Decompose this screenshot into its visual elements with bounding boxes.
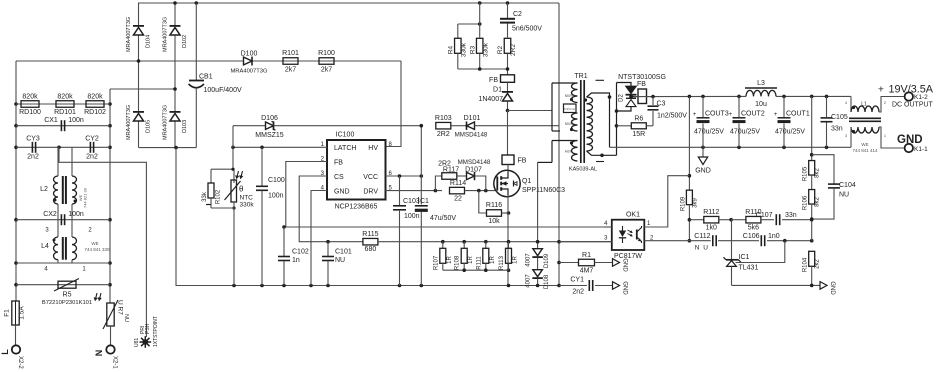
wire CS pin down (net B) (299, 176, 362, 242)
svg-text:R1: R1 (582, 252, 591, 259)
wire TL431 ref (736, 241, 785, 263)
resistor R103 2R2 (436, 122, 451, 129)
svg-text:8k2: 8k2 (815, 168, 821, 178)
svg-text:100uF/400V: 100uF/400V (204, 87, 242, 94)
electrolytic COUT2 470u/25V (738, 96, 740, 117)
svg-text:2n2: 2n2 (86, 154, 98, 161)
wire aux rail to VCC (column x=421) (420, 126, 422, 176)
resistor R4 330k (458, 23, 480, 25)
svg-text:MRA4007T3G: MRA4007T3G (163, 17, 169, 52)
svg-text:LATCH: LATCH (334, 145, 356, 152)
node GND bus junctions (232, 284, 236, 288)
diode D107 MMSD4148 (457, 175, 467, 177)
svg-text:N5VR: N5VR (565, 94, 574, 98)
svg-text:VCC: VCC (363, 174, 378, 181)
wire OK1 pin1 to R109 (644, 176, 689, 227)
svg-text:470u/25V: 470u/25V (775, 129, 805, 136)
svg-text:X2-2: X2-2 (17, 356, 23, 369)
wire OK1 pin4 stub (604, 226, 612, 228)
diode D103 MRA4007T3G (170, 114, 180, 122)
wire R7 to terminal N (110, 326, 112, 345)
svg-text:L1: L1 (861, 102, 867, 108)
svg-text:1N4007: 1N4007 (478, 96, 503, 103)
svg-text:AUX: AUX (565, 150, 572, 154)
diode D1 1N4007 (507, 82, 509, 93)
svg-text:R3: R3 (470, 45, 477, 54)
svg-text:C102: C102 (292, 249, 309, 256)
resistor R116 10k (gate-source) (479, 191, 487, 213)
svg-text:D108: D108 (544, 274, 550, 289)
wire CY midpoint to earth test point (59, 147, 146, 337)
svg-text:47u/50V: 47u/50V (430, 215, 456, 222)
svg-text:1n0: 1n0 (768, 233, 780, 240)
svg-text:R6: R6 (634, 116, 643, 123)
wire snubber bottom rail (458, 68, 508, 70)
resistor R117 2R2 (gate off) (435, 176, 441, 191)
svg-text:1R: 1R (513, 255, 519, 263)
wire bridge negative rail down to primary GND bus (176, 148, 559, 286)
wire DRV row (386, 190, 443, 192)
capacitor C107 33n (775, 214, 777, 225)
wire aux diode column (537, 162, 539, 248)
wire AC line-side left column (L) (15, 61, 17, 301)
wire AC input A row (16, 60, 401, 62)
test point U81 PRI PSH 1XTSTPOINT (143, 339, 149, 345)
diode D105 MRA4007T3G (134, 114, 144, 122)
node junctions on left columns (14, 102, 18, 106)
svg-text:R104: R104 (803, 257, 809, 272)
shunt regulator IC1 TL431 (731, 220, 733, 260)
wire AC line-side right column (N) (109, 89, 111, 303)
svg-text:U R7: U R7 (117, 300, 124, 315)
node bridge junctions (173, 1, 177, 5)
svg-text:FB: FB (518, 158, 527, 165)
svg-text:+: + (878, 84, 884, 96)
svg-text:FB: FB (489, 77, 498, 84)
resistor R3 330k (479, 3, 481, 38)
node top rail junctions (478, 1, 482, 5)
wire output bus after L3 (776, 95, 851, 97)
svg-text:MRA4007T3G: MRA4007T3G (126, 17, 132, 52)
svg-text:470u/25V: 470u/25V (694, 129, 724, 136)
terminal X2-2 L (12, 345, 20, 353)
current sense resistors R107/R108/R111/R113 1R (441, 240, 445, 244)
resistor RD100 820k (16, 103, 110, 105)
svg-text:L3: L3 (757, 80, 765, 87)
svg-text:GND: GND (695, 168, 711, 175)
svg-text:L: L (0, 349, 10, 355)
svg-text:K1-1: K1-1 (914, 146, 928, 153)
zener D106 MMSZ15 (233, 125, 266, 127)
svg-text:R114: R114 (450, 180, 466, 187)
svg-text:100n: 100n (68, 211, 84, 218)
svg-text:1k0: 1k0 (706, 225, 717, 232)
svg-text:2k7: 2k7 (321, 67, 332, 74)
svg-text:NTC: NTC (240, 195, 254, 202)
diode D101 MMSD4148 (451, 125, 467, 127)
wire AC input B row (110, 88, 175, 90)
svg-text:744 841 330: 744 841 330 (84, 247, 110, 252)
ferrite bead FB (clamp) (501, 75, 515, 83)
svg-text:NU: NU (839, 192, 849, 199)
svg-text:R115: R115 (362, 231, 378, 238)
wire bridge top rail (138, 2, 559, 4)
svg-text:R109: R109 (681, 196, 687, 211)
wire Q1 source column (507, 195, 509, 286)
svg-text:DRV: DRV (363, 189, 378, 196)
MOSFET Q1 SPP11N60C3 (507, 165, 509, 173)
wire NTC bottom to GND bus (206, 204, 211, 206)
ferrite bead FB (drain) (507, 111, 509, 156)
svg-text:N5VR: N5VR (565, 122, 574, 126)
capacitor C101 NU (326, 240, 330, 244)
NTC thermistor 330k (231, 180, 237, 202)
svg-text:OK1: OK1 (626, 212, 640, 219)
capacitor CY3 2n2 (16, 146, 110, 148)
svg-text:2R2: 2R2 (437, 131, 450, 138)
svg-text:MMSZ15: MMSZ15 (255, 132, 284, 139)
svg-text:33n: 33n (785, 212, 797, 219)
capacitor C3 1n2/500V (snubber) (652, 97, 654, 105)
resistor R1 4M7 (bridge primary-secondary) (559, 262, 579, 264)
svg-text:330k: 330k (461, 42, 468, 57)
svg-text:8k2: 8k2 (815, 197, 821, 207)
svg-text:1R: 1R (490, 255, 496, 263)
svg-text:3k9: 3k9 (693, 198, 699, 208)
svg-text:L4: L4 (41, 243, 49, 250)
svg-text:L2: L2 (40, 186, 48, 193)
svg-text:F1: F1 (4, 309, 11, 317)
svg-text:R106: R106 (803, 195, 809, 210)
svg-text:R101: R101 (282, 50, 299, 57)
capacitor CY1 2n2 (Y-cap) (559, 285, 587, 287)
svg-text:GND: GND (622, 281, 628, 295)
svg-text:5n6/500V: 5n6/500V (512, 26, 542, 33)
TR1 secondary winding (587, 97, 593, 151)
common-mode choke L4 (53, 237, 58, 260)
svg-text:R103: R103 (435, 115, 452, 122)
wire drain node to transformer primary (508, 110, 553, 112)
svg-text:+: + (774, 112, 778, 118)
capacitor C112 NU (712, 235, 714, 246)
svg-text:GND: GND (334, 189, 350, 196)
svg-text:KA5039-AL: KA5039-AL (569, 167, 597, 173)
wire OK1 pin2 row (644, 240, 710, 242)
wire bridge D102/D103 column (174, 3, 176, 26)
svg-text:2n2: 2n2 (572, 289, 584, 296)
bulk capacitor CB1 100uF/400V (195, 3, 197, 80)
svg-text:MRA4007T3G: MRA4007T3G (126, 105, 132, 140)
diode D108 4007 (533, 270, 543, 277)
svg-text:NCP1236B65: NCP1236B65 (335, 204, 378, 211)
wire secondary output to D2 anodes (616, 83, 618, 156)
svg-text:5.9Vrms: 5.9Vrms (564, 107, 576, 111)
capacitor C102 1n (283, 227, 285, 256)
diode D104 MRA4007T3G (134, 28, 144, 36)
svg-text:100n: 100n (268, 193, 284, 200)
svg-text:X2-1: X2-1 (111, 356, 117, 369)
wire gate (496, 190, 497, 192)
optocoupler OK1 PC817W (612, 220, 645, 250)
svg-text:R117: R117 (443, 167, 459, 174)
electrolytic COUT3 470u/25V (702, 96, 704, 117)
svg-text:MRA4007T3G: MRA4007T3G (230, 69, 268, 75)
wire rectified output to bus (647, 95, 747, 97)
svg-text:DC OUTPUT: DC OUTPUT (892, 102, 934, 109)
fuse F1 1.5A (12, 301, 19, 325)
wire FB pin to optocoupler (net A) (286, 162, 612, 228)
wire GND pin to bus (311, 191, 327, 286)
svg-text:D105: D105 (146, 120, 152, 133)
svg-text:θ: θ (239, 185, 244, 194)
resistor R109 3k9 (LED bias) (688, 96, 690, 190)
svg-text:CS: CS (334, 174, 344, 181)
capacitor C2 5n6/500V (507, 3, 509, 18)
svg-text:+: + (693, 112, 697, 118)
svg-text:R100: R100 (318, 50, 335, 57)
svg-text:22: 22 (454, 196, 462, 203)
svg-text:CB1: CB1 (199, 74, 213, 81)
diode D109 4007 (533, 249, 543, 256)
wire sense resistor bottom rail (443, 269, 509, 271)
svg-text:C112: C112 (694, 233, 710, 240)
svg-text:1n: 1n (292, 257, 300, 264)
svg-text:WE: WE (91, 241, 98, 246)
svg-text:C106: C106 (743, 233, 760, 240)
resistor R101 2k7 (283, 58, 298, 65)
capacitor C103 100n (VCC) (399, 176, 401, 205)
svg-text:D109: D109 (544, 253, 550, 268)
resistor R106 8k2 (809, 190, 815, 205)
node output bus junctions (688, 95, 692, 99)
svg-text:4007: 4007 (526, 274, 532, 288)
svg-text:+: + (729, 112, 733, 118)
svg-text:GND: GND (622, 258, 628, 272)
wire bridge negative rail (139, 147, 197, 149)
resistor R114 22 (gate) (450, 187, 465, 194)
svg-text:1n2/500V: 1n2/500V (657, 113, 687, 120)
inductor L3 10u (746, 90, 776, 96)
svg-text:330k: 330k (240, 202, 255, 209)
svg-text:NU: NU (123, 314, 129, 322)
svg-text:HV: HV (368, 145, 378, 152)
electrolytic COUT1 470u/25V (783, 96, 785, 117)
svg-text:TR1: TR1 (574, 73, 587, 80)
wire LATCH net (233, 146, 327, 148)
svg-text:R116: R116 (486, 202, 502, 209)
wire bridge D104/D105 column (138, 3, 140, 26)
svg-text:2n2: 2n2 (27, 154, 39, 161)
TR1 primary winding upper (551, 83, 553, 131)
svg-text:N: N (94, 350, 104, 357)
ferrite bead FB (secondary) (638, 89, 647, 104)
svg-text:10u: 10u (755, 101, 767, 108)
svg-text:Q1: Q1 (522, 178, 531, 185)
svg-text:D106: D106 (261, 115, 278, 122)
svg-text:N U: N U (695, 245, 709, 252)
common-mode choke L2 (54, 176, 59, 204)
resistor R110 5k6 (731, 219, 746, 221)
svg-text:2R2: 2R2 (510, 44, 517, 56)
svg-text:MMSD4148: MMSD4148 (458, 159, 491, 166)
svg-text:COUT2: COUT2 (741, 111, 765, 118)
svg-text:33n: 33n (831, 126, 843, 133)
svg-text:4007: 4007 (526, 253, 532, 267)
svg-text:1.5A: 1.5A (19, 306, 26, 320)
svg-text:PSH: PSH (145, 323, 151, 334)
svg-text:R105: R105 (803, 166, 809, 181)
terminal X2-1 N (106, 345, 114, 353)
terminal K1-1 GND (905, 144, 913, 152)
svg-text:CX1: CX1 (44, 117, 58, 124)
svg-text:CY3: CY3 (26, 136, 40, 143)
wire bulk/ground vertical x559 (558, 3, 560, 286)
wire R100 to HV pin (386, 61, 402, 147)
svg-text:5k6: 5k6 (748, 225, 759, 232)
svg-text:COUT1: COUT1 (786, 111, 810, 118)
resistor R6 15R (snubber) (617, 125, 632, 127)
resistor R105 8k2 (811, 96, 813, 160)
svg-text:820k: 820k (87, 94, 103, 101)
resistor R100 2k7 (319, 58, 334, 65)
svg-text:K1-2: K1-2 (914, 94, 928, 101)
svg-text:C2: C2 (513, 11, 522, 18)
svg-text:B72210P2301K101: B72210P2301K101 (42, 300, 92, 306)
controller IC100 NCP1236B65 (327, 140, 386, 200)
svg-text:D2: D2 (619, 94, 625, 102)
node drain (506, 109, 510, 113)
svg-text:C107: C107 (756, 212, 773, 219)
svg-text:33k: 33k (202, 191, 208, 202)
svg-text:100n: 100n (68, 117, 84, 124)
svg-text:D107: D107 (465, 167, 482, 174)
capacitor CX2 100n (16, 219, 110, 221)
svg-text:744 821 39: 744 821 39 (83, 187, 88, 208)
svg-text:D104: D104 (146, 35, 152, 48)
capacitor C106 1n0 (760, 235, 762, 246)
capacitor C104 NU (812, 155, 834, 184)
output common-mode choke L1 (850, 96, 852, 112)
capacitor C100 100n (261, 147, 263, 186)
varistor R7 (NU) (95, 293, 97, 299)
svg-text:C105: C105 (831, 114, 848, 121)
resistor R2 2R2 (504, 38, 511, 53)
svg-text:C104: C104 (839, 182, 856, 189)
svg-text:RD101: RD101 (54, 109, 76, 116)
wire secondary GND bus (610, 146, 852, 148)
svg-text:2k2: 2k2 (815, 259, 821, 269)
svg-text:C1: C1 (420, 198, 429, 205)
svg-text:15R: 15R (632, 131, 645, 138)
svg-text:GND: GND (829, 281, 835, 295)
wire L4 bottom row (16, 262, 110, 264)
svg-text:4M7: 4M7 (580, 268, 594, 275)
svg-text:NU: NU (335, 257, 345, 264)
svg-text:D102: D102 (182, 35, 188, 48)
svg-text:MRA4007T3G: MRA4007T3G (163, 105, 169, 140)
capacitor C105 33n (826, 96, 828, 117)
svg-text:100n: 100n (404, 213, 420, 220)
svg-text:FB: FB (334, 160, 343, 167)
capacitor CX1 100n (16, 125, 110, 127)
svg-text:MMSD4148: MMSD4148 (455, 132, 488, 139)
svg-text:C100: C100 (268, 177, 285, 184)
svg-text:GND: GND (897, 134, 923, 146)
wire VCC row (386, 175, 422, 177)
TR1 aux winding (551, 141, 553, 163)
svg-text:1R: 1R (468, 255, 474, 263)
svg-text:NTST30100SG: NTST30100SG (618, 74, 666, 81)
wire TL431 anode rail to GND flag (732, 284, 821, 286)
svg-text:R111: R111 (476, 256, 482, 270)
svg-text:1XTSTPOINT: 1XTSTPOINT (153, 316, 159, 347)
wire OK1 pin3 stub (559, 241, 612, 243)
svg-text:R102: R102 (216, 189, 222, 204)
svg-text:COUT3: COUT3 (705, 111, 729, 118)
svg-text:IC100: IC100 (336, 132, 355, 139)
diode D100 MRA4007T3G (244, 57, 253, 65)
svg-text:470u/25V: 470u/25V (730, 129, 760, 136)
svg-text:744 841 414: 744 841 414 (852, 148, 878, 153)
wire F1 to terminal L (15, 325, 17, 345)
svg-text:TL431: TL431 (739, 265, 759, 272)
svg-text:330k: 330k (483, 42, 490, 57)
resistor R104 2k2 (809, 251, 815, 266)
svg-text:U81: U81 (134, 338, 140, 347)
svg-text:RD102: RD102 (84, 109, 106, 116)
node CY midpoint (57, 146, 61, 150)
svg-text:CY2: CY2 (85, 136, 99, 143)
resistor RD102 820k (86, 101, 104, 108)
svg-text:680: 680 (365, 246, 377, 253)
svg-text:D100: D100 (241, 51, 258, 58)
svg-text:CX2: CX2 (43, 211, 57, 218)
svg-text:IC1: IC1 (739, 254, 750, 261)
terminal K1-2 +19V DC OUTPUT (905, 92, 913, 100)
resistor RD101 820k (56, 101, 74, 108)
svg-text:2k7: 2k7 (285, 67, 296, 74)
svg-text:D101: D101 (464, 115, 481, 122)
svg-text:D103: D103 (182, 120, 188, 133)
svg-text:820k: 820k (22, 94, 38, 101)
svg-text:FB: FB (637, 81, 646, 88)
svg-text:CY1: CY1 (570, 277, 584, 284)
capacitor C1 47u/50V (VCC bulk) (420, 176, 422, 205)
svg-text:R2: R2 (497, 45, 504, 54)
svg-text:10k: 10k (488, 218, 500, 225)
diode D102 MRA4007T3G (170, 28, 180, 36)
svg-text:C3: C3 (657, 101, 666, 108)
svg-text:1R: 1R (447, 255, 453, 263)
svg-text:C101: C101 (335, 249, 352, 256)
svg-text:D1: D1 (493, 87, 502, 94)
varistor R5 B72210P2301K101 (16, 284, 110, 286)
svg-text:R108: R108 (455, 255, 461, 270)
GND symbol output (702, 147, 704, 157)
svg-text:R113: R113 (499, 255, 505, 270)
svg-text:R5: R5 (63, 292, 72, 299)
svg-text:R107: R107 (433, 255, 439, 270)
thermistor network R102 / NTC 330k (232, 147, 234, 169)
svg-text:820k: 820k (57, 94, 73, 101)
svg-text:C103: C103 (403, 198, 420, 205)
svg-text:RD100: RD100 (19, 109, 41, 116)
svg-text:R4: R4 (448, 45, 455, 54)
svg-text:R112: R112 (703, 209, 719, 216)
resistor R112 1k0 (689, 219, 704, 221)
resistor R115 680 (CS filter) (363, 238, 378, 245)
capacitor CY2 2n2 (89, 142, 91, 153)
